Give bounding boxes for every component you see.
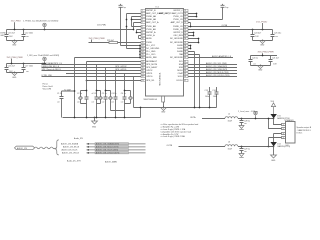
svg-text:32: 32 (184, 32, 186, 34)
svg-text:~VBAT/2N W 3.5: ~VBAT/2N W 3.5 (297, 129, 311, 132)
svg-text:1: 1 (142, 10, 143, 12)
svg-text:NC_GROUND: NC_GROUND (170, 57, 183, 59)
svg-text:33: 33 (184, 35, 186, 37)
svg-text:C21 4u7: C21 4u7 (272, 58, 279, 60)
svg-text:17: 17 (142, 61, 144, 63)
svg-text:10V: 10V (9, 36, 13, 38)
svg-text:Cap: Cap (122, 7, 125, 9)
svg-text:C16: C16 (212, 90, 215, 92)
svg-text:1V2_PMU: 1V2_PMU (11, 21, 21, 23)
svg-text:AVDD_REF: AVDD_REF (146, 56, 157, 59)
svg-text:SPK_GPIO2: SPK_GPIO2 (115, 66, 127, 68)
svg-text:AUDIO_I2S_MCLK (3V3): AUDIO_I2S_MCLK (3V3) (96, 146, 119, 149)
svg-text:OUTA: OUTA (222, 24, 228, 27)
svg-text:AUDIO_I2S_MCLK (3V3): AUDIO_I2S_MCLK (3V3) (206, 71, 229, 74)
svg-text:AUDIO_I2S_SCL (3V3): AUDIO_I2S_SCL (3V3) (206, 62, 227, 65)
svg-text:C26 4u7: C26 4u7 (8, 66, 15, 68)
svg-text:AUDIO_I2S_SCLK: AUDIO_I2S_SCLK (62, 149, 79, 152)
svg-text:cer: cer (111, 100, 114, 103)
svg-text:NC_GROUND: NC_GROUND (170, 38, 183, 40)
svg-text:cer: cer (57, 100, 60, 103)
svg-text:C1 1u: C1 1u (57, 93, 62, 95)
svg-text:BSTRP_D: BSTRP_D (174, 32, 184, 34)
svg-text:18: 18 (142, 64, 144, 66)
svg-text:AUDIO ADAP/SD_LS: AUDIO ADAP/SD_LS (212, 55, 232, 58)
svg-text:8 Ohm: 8 Ohm (297, 132, 303, 134)
svg-text:cer: cer (275, 35, 278, 38)
svg-text:BSTRP_A: BSTRP_A (146, 31, 156, 34)
svg-text:15uH: 15uH (228, 149, 233, 151)
svg-text:DVDD: DVDD (146, 42, 152, 44)
svg-text:3V3_PMU_PERI: 3V3_PMU_PERI (89, 38, 106, 40)
svg-text:5: 5 (142, 22, 143, 24)
svg-text:Cap: Cap (225, 7, 228, 9)
svg-text:26: 26 (184, 13, 186, 15)
svg-text:CDAT: CDAT (178, 72, 184, 75)
svg-text:30: 30 (184, 26, 186, 28)
svg-text:OSC_RES: OSC_RES (173, 35, 183, 37)
svg-text:GVDD_A: GVDD_A (146, 34, 155, 37)
svg-text:10V: 10V (273, 63, 277, 65)
svg-text:cer: cer (244, 122, 247, 125)
svg-text:10V: 10V (255, 36, 259, 38)
svg-text:SPK_MUTE: SPK_MUTE (146, 64, 157, 66)
svg-text:C20 1u: C20 1u (252, 58, 258, 60)
svg-text:SPK_GPIO1: SPK_GPIO1 (115, 69, 127, 71)
svg-text:10: 10 (142, 38, 144, 40)
svg-text:38: 38 (184, 51, 186, 53)
svg-text:cer: cer (26, 70, 29, 73)
svg-text:C25 10u: C25 10u (274, 33, 281, 35)
svg-text:BSTRP_C: BSTRP_C (174, 10, 184, 12)
svg-text:SGND: SGND (177, 45, 183, 47)
svg-text:cer: cer (102, 100, 105, 103)
svg-text:AUDIO_I2S_LRCLK (3V3): AUDIO_I2S_LRCLK (3V3) (96, 152, 120, 155)
svg-text:40: 40 (184, 57, 186, 59)
svg-text:L2: L2 (228, 114, 230, 116)
svg-text:SCLK: SCLK (178, 76, 184, 78)
svg-text:Vitae LVM: Vitae LVM (43, 88, 52, 91)
svg-text:AMP_OUT_C /AMP_OUT1: AMP_OUT_C /AMP_OUT1 (159, 12, 184, 15)
svg-text:7: 7 (142, 29, 143, 31)
svg-text:8: 8 (142, 32, 143, 34)
svg-text:cer: cer (92, 100, 95, 103)
svg-text:31: 31 (184, 29, 186, 31)
svg-text:46: 46 (184, 76, 186, 78)
svg-text:GND: GND (0, 35, 5, 37)
svg-text:TAS5754MDCA: TAS5754MDCA (143, 98, 157, 101)
svg-text:cer: cer (253, 62, 256, 65)
svg-text:C24 4u7: C24 4u7 (254, 33, 261, 35)
svg-text:C2 1u: C2 1u (77, 93, 82, 95)
svg-text:PLL_GND: PLL_GND (146, 51, 156, 53)
svg-text:28: 28 (184, 19, 186, 21)
svg-text:C6 1u: C6 1u (121, 93, 126, 95)
svg-text:C4 1n: C4 1n (111, 93, 116, 95)
svg-text:100n: 100n (213, 96, 217, 98)
svg-text:NC_GROUND: NC_GROUND (146, 48, 159, 50)
svg-text:27: 27 (184, 16, 186, 18)
svg-text:20: 20 (142, 70, 144, 72)
svg-text:GND: GND (92, 126, 97, 128)
svg-text:R29 4k7: R29 4k7 (107, 40, 114, 42)
svg-text:u2 C8: u2 C8 (92, 93, 97, 95)
svg-text:SDA: SDA (179, 63, 184, 66)
svg-text:15uH: 15uH (228, 121, 233, 123)
svg-text:12: 12 (142, 45, 144, 47)
svg-text:PGND_CD: PGND_CD (173, 26, 183, 28)
svg-text:29: 29 (184, 22, 186, 24)
svg-text:PGND_CD: PGND_CD (173, 29, 183, 31)
svg-text:AMP_OUT_D: AMP_OUT_D (171, 21, 184, 24)
svg-text:16: 16 (142, 57, 144, 59)
svg-text:MCLK: MCLK (177, 70, 183, 72)
svg-text:AUDIO_I2S_SDA (3V3): AUDIO_I2S_SDA (3V3) (206, 65, 227, 68)
svg-text:C22 100n: C22 100n (25, 33, 33, 35)
svg-text:AUDIO_I2S_SDB (3V3): AUDIO_I2S_SDB (3V3) (206, 68, 227, 71)
svg-text:C23 4u7: C23 4u7 (8, 33, 15, 35)
svg-text:AUDIO_I2S: AUDIO_I2S (17, 147, 28, 150)
svg-text:=> Imax 8 up(c) 7W/4L2 38A: => Imax 8 up(c) 7W/4L2 38A (161, 135, 186, 138)
svg-text:GND: GND (260, 44, 265, 46)
svg-text:cer: cer (26, 35, 29, 38)
svg-text:DGND: DGND (0, 32, 6, 34)
svg-text:cer: cer (121, 100, 124, 103)
svg-text:TAS5754MDCA: TAS5754MDCA (159, 72, 162, 86)
svg-text:9: 9 (142, 35, 143, 37)
svg-text:GND: GND (161, 112, 166, 114)
svg-text:11: 11 (142, 42, 144, 44)
svg-text:PGND_AB: PGND_AB (146, 15, 156, 18)
svg-text:3: 3 (142, 16, 143, 18)
svg-text:2: 2 (283, 128, 284, 130)
svg-text:GND: GND (12, 44, 17, 46)
svg-text:15: 15 (142, 54, 144, 56)
svg-text:45: 45 (184, 73, 186, 75)
svg-text:PGND_AB: PGND_AB (146, 18, 156, 21)
svg-text:AUDIO_I2S_SDATA: AUDIO_I2S_SDATA (61, 143, 79, 146)
svg-text:36: 36 (184, 45, 186, 47)
svg-text:21: 21 (142, 73, 144, 75)
svg-text:35: 35 (184, 42, 186, 44)
svg-text:1V2_PMU: 1V2_PMU (97, 25, 107, 27)
svg-text:4: 4 (142, 19, 143, 21)
svg-text:AVDD: AVDD (146, 37, 152, 40)
svg-text:cer: cer (244, 150, 247, 153)
svg-text:PVDD_CD: PVDD_CD (173, 19, 183, 21)
svg-text:AUDIO_I2S_LRCLK: AUDIO_I2S_LRCLK (62, 152, 80, 155)
svg-text:BSTRP_B: BSTRP_B (146, 10, 156, 12)
svg-text:SPK_SD: SPK_SD (146, 80, 154, 82)
svg-text:14: 14 (142, 51, 144, 53)
svg-text:X11: X11 (286, 145, 289, 147)
svg-text:3: 3 (283, 133, 284, 135)
svg-text:6: 6 (142, 26, 143, 28)
svg-text:47: 47 (184, 80, 186, 82)
svg-text:PLL_VCC: PLL_VCC (146, 45, 155, 47)
svg-text:GND: GND (258, 69, 263, 71)
svg-text:39: 39 (184, 54, 186, 56)
svg-text:AUDIO_I2S_SCLK (3V3): AUDIO_I2S_SCLK (3V3) (96, 149, 119, 152)
svg-text:cer: cer (77, 100, 80, 103)
svg-text:LRCLK: LRCLK (176, 80, 183, 82)
svg-text:SDB: SDB (179, 67, 184, 69)
svg-text:25: 25 (184, 10, 186, 12)
svg-text:1_PV100_max 50mA (1V2D and 1V2: 1_PV100_max 50mA (1V2D and 1V2DIO) (23, 20, 59, 23)
svg-text:NC_GROUND: NC_GROUND (170, 42, 183, 44)
svg-text:PLL_CKO: PLL_CKO (146, 54, 155, 56)
svg-text:1: 1 (283, 124, 284, 126)
svg-text:AUDIO_MAIN: AUDIO_MAIN (105, 160, 117, 163)
svg-text:TAB: TAB (179, 53, 183, 56)
svg-text:AMP_OUT_A: AMP_OUT_A (146, 21, 159, 24)
svg-text:SPK_FAULT: SPK_FAULT (146, 66, 158, 69)
svg-text:42: 42 (184, 64, 186, 66)
svg-text:C15: C15 (205, 90, 208, 92)
svg-text:41: 41 (184, 61, 186, 63)
svg-text:DGND: DGND (177, 51, 183, 53)
svg-text:GPIO2: GPIO2 (146, 70, 153, 72)
svg-text:1V2_PVDD: 1V2_PVDD (256, 21, 268, 23)
svg-text:AUDIO_I2S_MCLK: AUDIO_I2S_MCLK (63, 146, 80, 149)
svg-text:37: 37 (184, 48, 186, 50)
svg-text:C27 100n: C27 100n (25, 66, 33, 68)
svg-text:Speaker output B: Speaker output B (297, 126, 312, 129)
svg-text:22: 22 (142, 76, 144, 78)
svg-text:L3: L3 (228, 142, 230, 144)
svg-text:AUDIO_I2S_LRCLK (3V3): AUDIO_I2S_LRCLK (3V3) (206, 74, 230, 77)
svg-text:OUTA: OUTA (190, 116, 196, 119)
svg-text:PVDD_CD: PVDD_CD (173, 16, 183, 18)
svg-text:44: 44 (184, 70, 186, 72)
svg-text:AUDIO_I2S_SDATA (3V3): AUDIO_I2S_SDATA (3V3) (96, 143, 120, 146)
svg-text:1_DIO_max 70mA (3V3IO and 3V3I: 1_DIO_max 70mA (3V3IO and 3V3IO) (27, 54, 60, 57)
svg-text:13: 13 (142, 48, 144, 50)
svg-text:4: 4 (283, 137, 284, 139)
svg-text:Audio_I2S: Audio_I2S (74, 137, 83, 140)
svg-text:2: 2 (142, 13, 143, 15)
svg-text:GPIO1: GPIO1 (146, 73, 153, 75)
svg-text:3V3_PMU_PERI: 3V3_PMU_PERI (258, 52, 275, 54)
svg-text:Audio_I2C_XTR: Audio_I2C_XTR (67, 159, 81, 162)
svg-text:43: 43 (184, 67, 186, 69)
svg-text:GPIO0: GPIO0 (146, 76, 153, 78)
svg-text:Y2 24M: Y2 24M (64, 89, 71, 91)
svg-text:ADR/FAULT: ADR/FAULT (146, 60, 158, 63)
svg-text:19: 19 (142, 67, 144, 69)
svg-text:SGND: SGND (177, 48, 183, 50)
svg-text:GND: GND (12, 77, 17, 79)
svg-text:34: 34 (184, 38, 186, 40)
svg-text:PVDD_AB: PVDD_AB (146, 25, 156, 28)
svg-text:PVDD_AB: PVDD_AB (146, 28, 156, 31)
svg-text:C9 1u: C9 1u (102, 93, 107, 95)
svg-text:23: 23 (142, 80, 144, 82)
svg-text:OUTB: OUTB (167, 145, 173, 147)
svg-text:GND: GND (271, 160, 276, 162)
svg-text:3V3_PMU_PERI: 3V3_PMU_PERI (7, 57, 24, 59)
svg-text:100n: 100n (205, 96, 209, 98)
